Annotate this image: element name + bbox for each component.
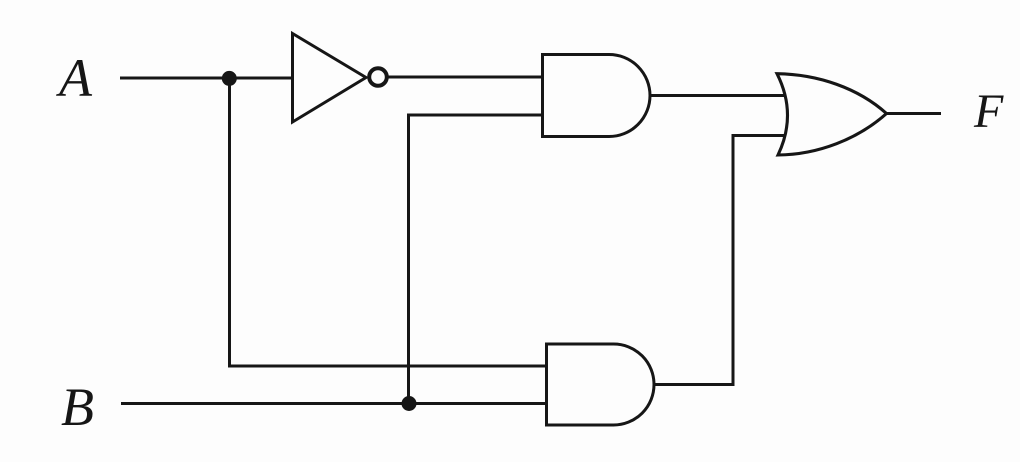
svg-text:F: F — [973, 85, 1004, 138]
svg-text:B: B — [61, 377, 94, 437]
svg-text:A: A — [56, 48, 93, 108]
